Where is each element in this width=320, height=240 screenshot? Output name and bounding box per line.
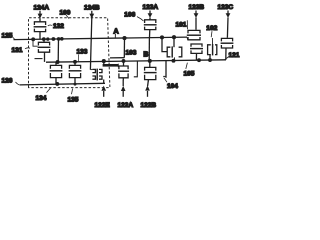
svg-text:106: 106 [124, 11, 135, 18]
label 132 with tilde leader [48, 23, 64, 30]
transistor 105 [190, 44, 203, 60]
arrow 122E [101, 86, 106, 97]
junction transistor 104 drain branch [172, 35, 176, 39]
junction bus3 transistor 135 drain [74, 83, 77, 86]
transistor 122B (T_e) [144, 61, 157, 82]
label 105 with leader [184, 63, 195, 78]
transistor 131 [33, 39, 50, 62]
transistor 102 [221, 37, 234, 60]
transistor 122E group (T_c) [90, 61, 118, 84]
svg-text:124B: 124B [84, 4, 100, 11]
svg-text:102: 102 [206, 25, 217, 32]
junction bus2 transistor 122E source [102, 59, 106, 63]
junction bus2 transistor 104 [172, 59, 176, 63]
label 100 [60, 9, 71, 18]
power arrow 124A [38, 11, 43, 20]
transistor 101 [187, 29, 201, 40]
svg-text:124A: 124A [34, 4, 50, 11]
svg-text:123A: 123A [143, 4, 159, 11]
label 126 [2, 78, 21, 85]
transistor 104 lower vertical wire [163, 60, 166, 77]
wire node B line bus1 to bus2 [148, 37, 150, 61]
power arrow 124B [89, 11, 94, 19]
svg-text:135: 135 [68, 96, 79, 103]
transistor 102 group right [208, 38, 217, 60]
svg-text:B: B [143, 51, 148, 58]
junction bus3 transistor 134 drain [55, 82, 59, 86]
junction bus2 right [208, 58, 212, 62]
transistor 106 [144, 19, 157, 38]
transistor 135 (T_b) below bus2 [69, 62, 82, 85]
power arrow 123A [148, 11, 153, 19]
svg-text:123B: 123B [189, 4, 205, 11]
svg-text:132: 132 [53, 23, 64, 30]
wire bus3 (126 line) [20, 83, 105, 85]
transistor 122A (T_d) [118, 61, 137, 80]
junction transistor 131 drain [42, 37, 46, 41]
arrow 122A [121, 80, 126, 97]
svg-text:122A: 122A [118, 102, 134, 109]
label 135 with leader [68, 89, 79, 104]
label 131 with tilde leader [12, 47, 31, 54]
junction node A left [52, 37, 56, 41]
svg-text:133: 133 [77, 48, 88, 55]
label 134 with leader [36, 88, 51, 102]
label 102 with leader [206, 25, 217, 37]
transistor 104 (horizontal) [167, 46, 182, 60]
arrow 122B [145, 81, 150, 97]
label 133 with leader [77, 48, 88, 61]
svg-text:100: 100 [60, 9, 71, 16]
transistor 134 (T_a) below bus2 [50, 62, 63, 85]
junction node A right [60, 37, 64, 41]
junction node 103 branch [122, 36, 126, 40]
junction bus2 transistor 105 [197, 58, 201, 62]
svg-text:104: 104 [167, 83, 178, 90]
dashed box 100 outline [29, 18, 110, 88]
label 101 with leader [176, 20, 188, 29]
svg-text:103: 103 [126, 49, 137, 56]
junction bus2 transistor 135 source [73, 60, 77, 64]
svg-text:122E: 122E [95, 102, 111, 109]
wire 124B vertical [90, 18, 91, 70]
svg-text:105: 105 [184, 70, 195, 77]
junction bus2 transistor 122A source [122, 59, 126, 63]
power arrow 123C [226, 11, 231, 38]
svg-text:126: 126 [2, 78, 13, 85]
label 104 with leader [164, 78, 178, 90]
svg-text:123C: 123C [218, 4, 234, 11]
junction transistor 104 gate branch [160, 35, 164, 39]
node A arrow [113, 26, 119, 38]
junction transistor 132 drain [46, 37, 49, 40]
svg-text:A: A [113, 26, 119, 35]
wire bus1 (node A row) [14, 37, 188, 40]
svg-text:125: 125 [2, 32, 13, 39]
wire branch 174 [173, 37, 175, 47]
label 125 [2, 32, 17, 39]
junction bus2 transistor 134 source [56, 60, 60, 64]
junction branch to bus2 [57, 37, 61, 41]
wire branch node A to bus2 [57, 38, 59, 62]
junction node 125 gate tap [31, 37, 35, 41]
junction bus2 node B [148, 59, 152, 63]
svg-text:131: 131 [12, 47, 23, 54]
power arrow 123B [194, 11, 199, 30]
wire branch 162 [162, 37, 167, 51]
label 106 with leader [124, 11, 143, 21]
svg-text:122B: 122B [141, 102, 157, 109]
wire node B vertical: 103 branch [110, 38, 125, 58]
label 121 with leader [225, 52, 240, 60]
transistor 132 [34, 20, 47, 39]
svg-text:134: 134 [36, 95, 47, 102]
wire bus2 (node 121 row) [46, 60, 226, 62]
svg-text:121: 121 [229, 52, 240, 59]
svg-text:101: 101 [176, 21, 187, 28]
